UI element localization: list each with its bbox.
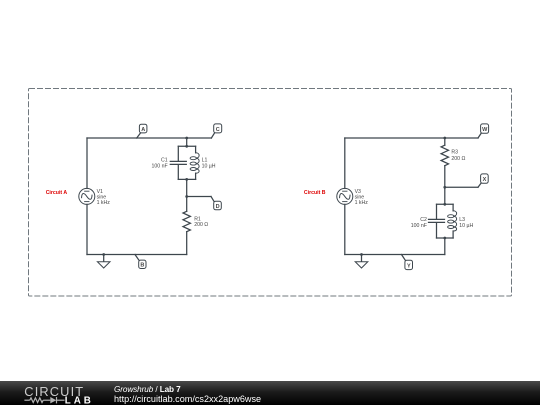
junction: node X tap <box>443 186 446 189</box>
junction: tank top <box>185 145 188 148</box>
svg-text:X: X <box>483 177 487 183</box>
schematic dashed border <box>29 89 512 297</box>
ground (circuit B) <box>355 253 368 268</box>
svg-text:200 Ω: 200 Ω <box>194 222 208 228</box>
node C flag <box>211 124 221 138</box>
svg-text:10 µH: 10 µH <box>459 223 473 229</box>
junction: B tank top <box>443 203 446 206</box>
wire: circuit B left rail bottom <box>344 204 346 254</box>
label: V1 sine 1 kHz <box>97 189 111 206</box>
wire: top rail to tank top <box>186 138 188 146</box>
label: R1 200 ohm <box>194 217 208 229</box>
node W flag <box>478 124 489 138</box>
svg-text:1 kHz: 1 kHz <box>355 200 369 206</box>
node Y flag <box>402 255 413 270</box>
label: L3 10 uH <box>459 217 473 229</box>
capacitor C2 <box>429 204 445 238</box>
svg-text:W: W <box>482 127 488 133</box>
svg-text:Circuit B: Circuit B <box>304 190 326 196</box>
wire: tank top bar <box>178 145 195 147</box>
svg-text:Circuit A: Circuit A <box>46 190 68 196</box>
node D flag <box>211 197 221 210</box>
footer bar <box>0 381 540 405</box>
wire: tap to node X <box>445 186 478 188</box>
junction: B top rail to R3 <box>443 137 446 140</box>
capacitor C1 <box>170 146 186 179</box>
wire: tank bottom bar <box>178 178 195 180</box>
wire: circuit A left rail top <box>86 138 88 188</box>
wire: B tank bottom bar <box>437 237 454 239</box>
wire: circuit A top rail <box>87 137 211 139</box>
svg-text:C: C <box>216 127 220 133</box>
node X flag <box>478 174 488 187</box>
junction: node D tap <box>185 195 188 198</box>
label: C1 100 nF <box>152 158 168 170</box>
label: L1 10 uH <box>202 158 216 170</box>
wire: tap to node D <box>187 196 211 198</box>
ground (circuit A) <box>97 253 110 268</box>
node A flag <box>137 124 147 138</box>
svg-text:10 µH: 10 µH <box>202 163 216 169</box>
junction: A top rail to tank <box>185 137 188 140</box>
wire: circuit B bottom rail <box>345 254 445 256</box>
wire: tank bottom to node D junction <box>186 179 188 196</box>
svg-text:A: A <box>141 127 145 133</box>
svg-text:R3: R3 <box>451 150 458 156</box>
resistor R3 <box>441 138 448 187</box>
credit text <box>114 383 261 404</box>
label: R3 200 ohm <box>451 150 465 163</box>
wire: B tank top bar <box>437 203 454 205</box>
junction: B tank bottom <box>443 237 446 240</box>
wire: node X junction to tank top <box>444 187 446 204</box>
label: C2 100 nF <box>411 217 427 229</box>
junction: tank bottom <box>185 178 188 181</box>
svg-text:LAB: LAB <box>65 395 91 405</box>
voltage source V1 <box>79 188 95 204</box>
label: V3 sine 1 kHz <box>355 189 369 206</box>
svg-text:B: B <box>140 263 144 269</box>
logo resistor-diode glyph <box>24 397 64 403</box>
inductor L3 <box>448 204 457 238</box>
wire: circuit A left rail bottom <box>86 204 88 254</box>
svg-text:D: D <box>216 204 220 210</box>
svg-text:Y: Y <box>407 263 411 269</box>
svg-text:100 nF: 100 nF <box>152 163 168 169</box>
svg-text:200 Ω: 200 Ω <box>451 156 465 162</box>
svg-text:100 nF: 100 nF <box>411 223 427 229</box>
voltage source V3 <box>337 188 353 204</box>
wire: circuit B top rail <box>345 137 478 139</box>
resistor R1 <box>183 197 190 255</box>
wire: circuit B left rail top <box>344 138 346 188</box>
wire: B tank bottom to bottom rail <box>444 238 446 255</box>
svg-text:1 kHz: 1 kHz <box>97 200 111 206</box>
inductor L1 <box>190 146 199 179</box>
wire: circuit A bottom rail <box>87 254 187 256</box>
CircuitLab logo <box>0 381 100 405</box>
node B flag <box>135 255 146 269</box>
